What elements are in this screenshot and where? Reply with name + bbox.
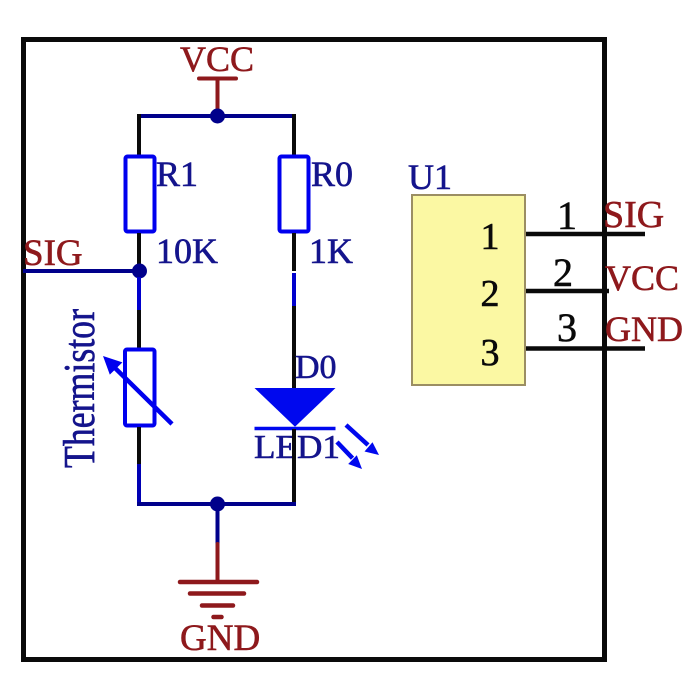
svg-text:1: 1 bbox=[557, 193, 577, 238]
connector U1 bbox=[412, 195, 525, 385]
svg-text:GND: GND bbox=[180, 618, 260, 659]
junction bbox=[132, 264, 147, 279]
thermistor bbox=[103, 350, 172, 426]
svg-text:VCC: VCC bbox=[605, 258, 679, 298]
svg-text:R1: R1 bbox=[156, 154, 198, 194]
svg-text:2: 2 bbox=[481, 273, 500, 315]
wire bbox=[137, 277, 141, 310]
pin 1 bbox=[481, 193, 646, 258]
wire bbox=[137, 114, 296, 118]
svg-text:D0: D0 bbox=[295, 349, 337, 386]
wire bbox=[137, 502, 296, 506]
pin 3 bbox=[481, 305, 646, 374]
svg-text:3: 3 bbox=[557, 305, 577, 350]
wire bbox=[216, 504, 220, 544]
svg-text:SIG: SIG bbox=[603, 194, 664, 236]
LED D0 bbox=[255, 388, 380, 469]
svg-text:1K: 1K bbox=[309, 231, 353, 271]
wire bbox=[292, 306, 296, 390]
resistor R1 bbox=[126, 157, 155, 232]
wire bbox=[137, 427, 141, 464]
svg-text:2: 2 bbox=[553, 250, 573, 295]
svg-text:VCC: VCC bbox=[180, 39, 254, 79]
svg-text:3: 3 bbox=[481, 332, 500, 374]
wire bbox=[292, 233, 296, 271]
wire bbox=[292, 114, 296, 155]
junction bbox=[210, 497, 225, 512]
wire bbox=[137, 114, 141, 155]
wire bbox=[137, 233, 141, 266]
wire bbox=[292, 429, 296, 506]
wire bbox=[137, 310, 141, 350]
svg-text:1: 1 bbox=[481, 216, 500, 258]
svg-text:LED1: LED1 bbox=[254, 429, 340, 466]
svg-text:GND: GND bbox=[605, 309, 683, 349]
svg-text:10K: 10K bbox=[156, 231, 218, 271]
wire bbox=[137, 464, 141, 506]
wire bbox=[292, 273, 296, 306]
ground bbox=[180, 544, 257, 617]
svg-text:Thermistor: Thermistor bbox=[55, 309, 104, 468]
pin 2 bbox=[481, 250, 610, 315]
wire bbox=[23, 269, 140, 273]
junction bbox=[210, 109, 225, 124]
power VCC bbox=[199, 79, 236, 114]
svg-text:U1: U1 bbox=[408, 157, 452, 197]
resistor R0 bbox=[280, 157, 309, 232]
svg-text:SIG: SIG bbox=[23, 233, 83, 274]
svg-text:R0: R0 bbox=[311, 154, 353, 194]
